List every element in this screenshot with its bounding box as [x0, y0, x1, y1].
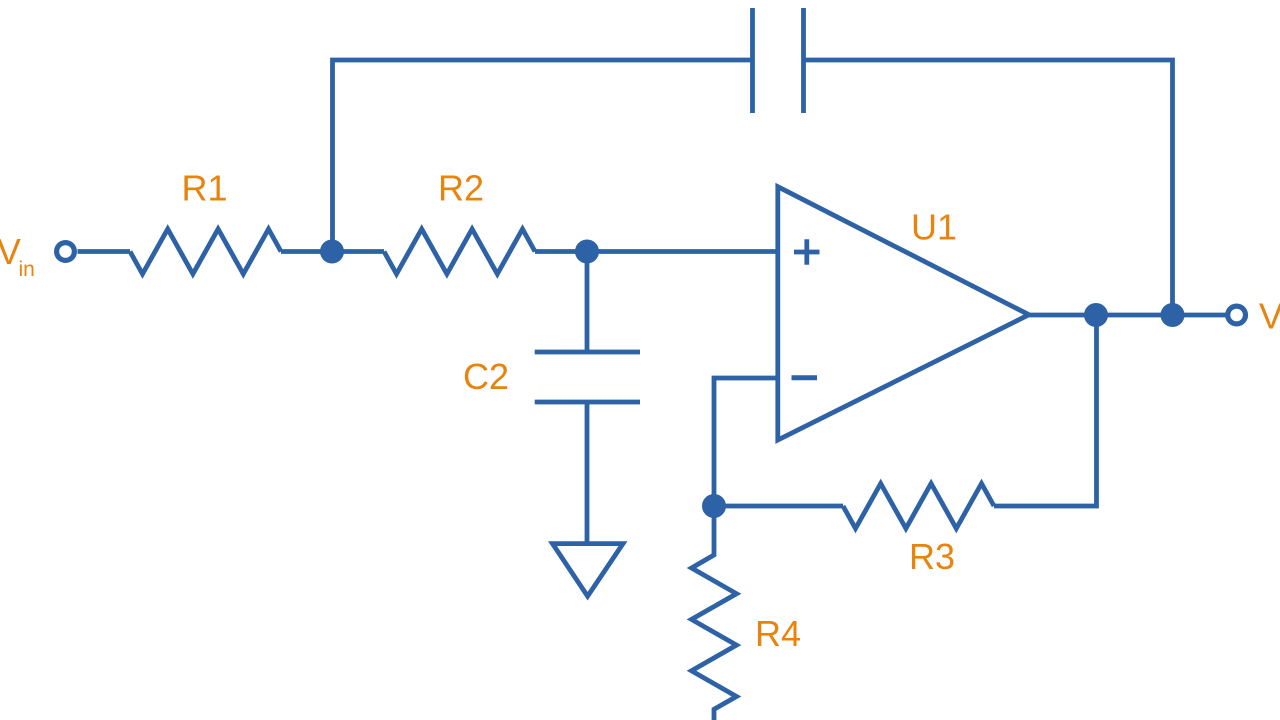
- node A junction dot: [320, 240, 344, 264]
- svg-text:V: V: [1259, 296, 1280, 337]
- op-amp U1 triangle: [778, 187, 1029, 440]
- svg-text:C2: C2: [463, 356, 509, 397]
- capacitor C2: [535, 352, 640, 402]
- wire Vin to R1: [78, 249, 131, 254]
- wire R2 to node B: [535, 249, 587, 254]
- terminal Vin: [57, 243, 75, 261]
- svg-text:R4: R4: [755, 613, 801, 654]
- resistor R4: [692, 506, 737, 720]
- svg-text:R3: R3: [909, 536, 955, 577]
- wire node B to op-amp plus input: [587, 249, 778, 254]
- node C junction dot: [702, 494, 726, 518]
- svg-text:U1: U1: [911, 207, 957, 248]
- wire C2 to ground: [585, 402, 590, 542]
- svg-text:R2: R2: [438, 168, 484, 209]
- op-amp minus input symbol: [792, 375, 818, 380]
- ground: [553, 544, 624, 597]
- node dot output 2: [1161, 303, 1185, 327]
- resistor R3: [843, 484, 994, 529]
- wire C1 to output node: [804, 60, 1173, 315]
- wire op-amp minus input to node C: [714, 378, 778, 506]
- node B junction dot: [575, 240, 599, 264]
- wire node C to R3: [714, 504, 843, 509]
- terminal Vout: [1228, 306, 1246, 324]
- node dot output 1: [1084, 303, 1108, 327]
- wire node A up to capacitor C1: [333, 60, 753, 252]
- svg-text:in: in: [19, 258, 35, 281]
- resistor R2: [384, 229, 535, 274]
- capacitor C1: [753, 8, 804, 113]
- wire node B down to C2: [585, 252, 590, 353]
- op-amp plus input symbol: [794, 239, 820, 264]
- wire node A to R2: [332, 249, 384, 254]
- wire R3 up to output node: [994, 315, 1097, 506]
- resistor R1: [130, 229, 281, 274]
- svg-text:R1: R1: [181, 168, 227, 209]
- wire op-amp output to Vout: [1029, 313, 1226, 318]
- wire R1 to node A: [281, 249, 332, 254]
